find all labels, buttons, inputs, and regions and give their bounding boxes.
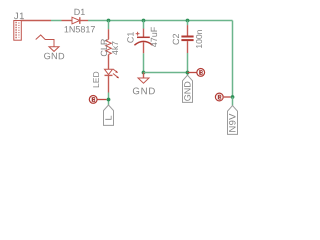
wire to flag circle xyxy=(97,99,106,101)
junction at N9V xyxy=(231,95,235,99)
wire LED bottom xyxy=(108,93,110,105)
svg-text:C1: C1 xyxy=(125,32,135,44)
wire to xref circle N9V xyxy=(224,96,231,98)
junction at C2 top xyxy=(186,19,190,23)
svg-text:D1: D1 xyxy=(74,7,86,17)
wire right column xyxy=(232,21,234,98)
net flag L xyxy=(104,105,114,125)
wire J1 pin 1 xyxy=(21,20,51,22)
svg-text:N9V: N9V xyxy=(227,113,238,133)
net flag N9V xyxy=(227,106,238,135)
wire C2 bottom xyxy=(187,53,189,75)
svg-text:100n: 100n xyxy=(194,29,204,48)
ground symbol at J1 xyxy=(49,47,59,52)
capacitor C1 xyxy=(134,21,152,54)
LED xyxy=(105,69,120,93)
svg-text:4k7: 4k7 xyxy=(110,41,120,55)
capacitor C2 xyxy=(181,21,193,54)
junction at resistor top xyxy=(107,19,111,23)
svg-text:C2: C2 xyxy=(171,33,181,45)
wire stub to flag xyxy=(232,97,234,106)
svg-text:GND: GND xyxy=(132,86,156,97)
svg-text:GND: GND xyxy=(44,51,65,61)
svg-text:GND: GND xyxy=(183,81,193,102)
svg-text:L: L xyxy=(104,115,114,120)
junction at C2 bottom xyxy=(186,71,190,75)
connector J1 xyxy=(14,21,21,41)
wire net to diode xyxy=(51,20,62,22)
net flag GND xyxy=(183,75,193,102)
xref circle at node L xyxy=(89,96,97,104)
wire gnd net horizontal xyxy=(144,72,188,74)
resistor CLR 4k7 xyxy=(106,29,112,69)
wire resistor top stub xyxy=(108,21,110,30)
svg-text:CLR: CLR xyxy=(99,38,109,57)
xref circle at N9V xyxy=(215,93,223,101)
wire to xref circle xyxy=(188,72,197,74)
wire C1 bottom xyxy=(143,53,145,72)
svg-text:LED: LED xyxy=(91,71,101,88)
xref circle at GND net xyxy=(197,69,205,77)
junction at C1 top xyxy=(142,19,146,23)
svg-text:1N5817: 1N5817 xyxy=(64,24,96,34)
wire top rail xyxy=(88,20,233,22)
svg-text:47uF: 47uF xyxy=(149,26,159,47)
diode D1 xyxy=(62,17,89,24)
junction GND net xyxy=(142,71,146,75)
ground symbol at C1 xyxy=(138,73,149,84)
wire J1 pin 2 to ground xyxy=(36,35,54,47)
junction node L xyxy=(107,98,111,102)
